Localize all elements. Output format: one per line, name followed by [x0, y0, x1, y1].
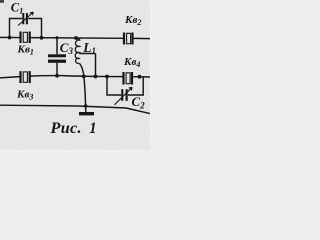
svg-text:Рис.1: Рис.1: [50, 119, 97, 137]
